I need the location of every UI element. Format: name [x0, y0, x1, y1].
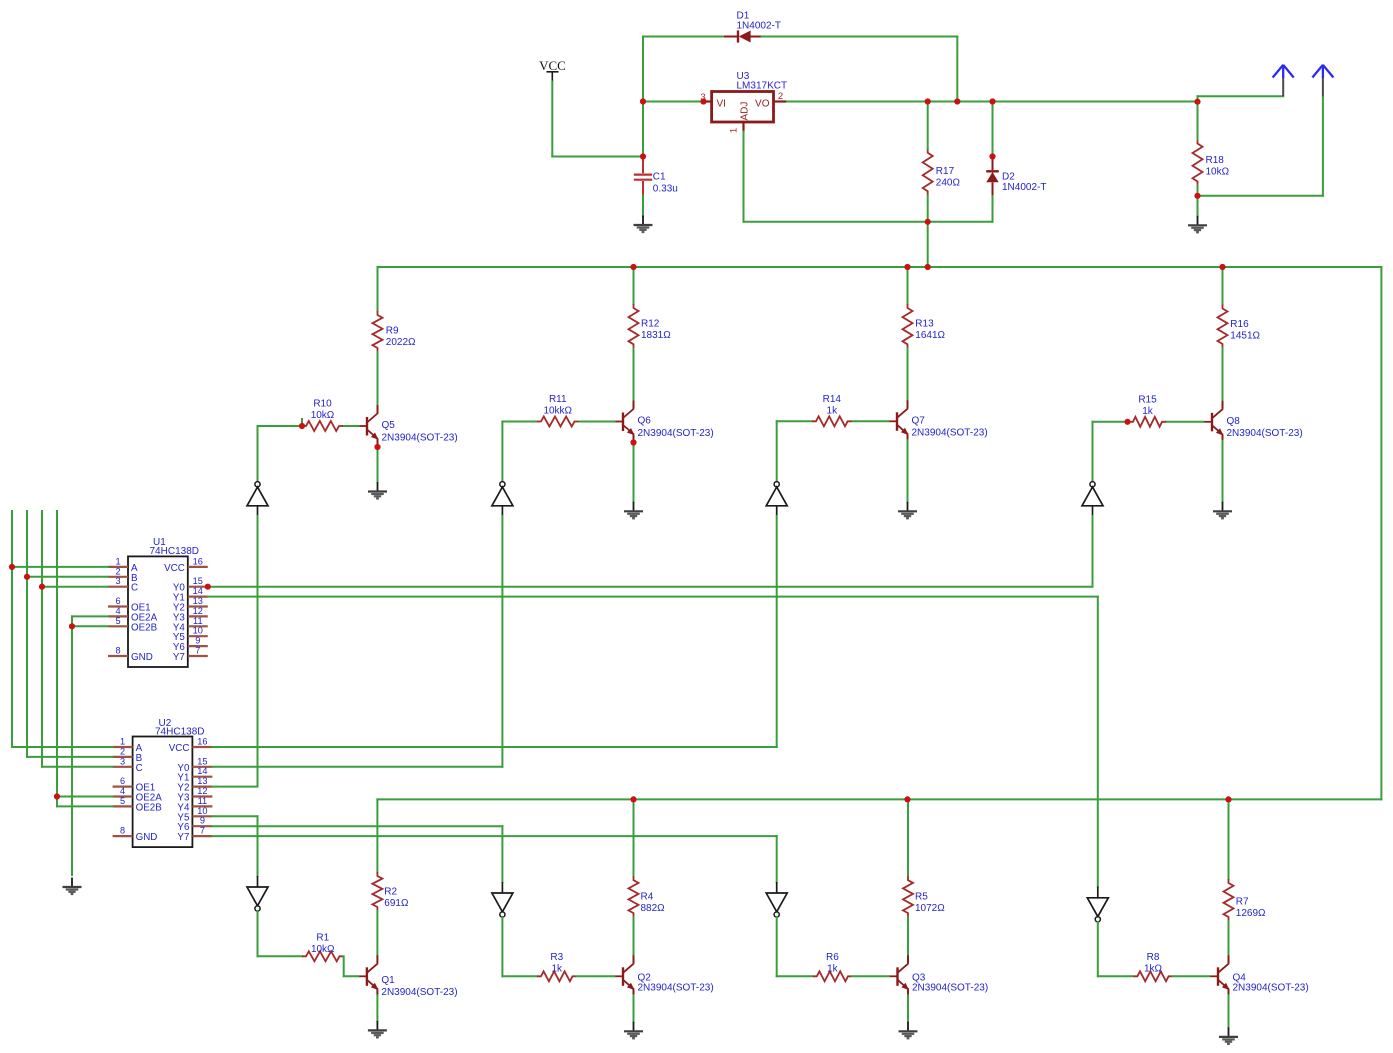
- wire emitter: [377, 445, 379, 482]
- svg-text:R9: R9: [386, 326, 399, 337]
- wire inverter output: [257, 911, 259, 956]
- pin 16 VCC of U1: [188, 566, 208, 568]
- diode D1 1N4002-T: [723, 30, 762, 42]
- resistor R5: [903, 876, 913, 917]
- wire inverter output: [501, 917, 503, 976]
- node junction: [374, 444, 380, 450]
- pin 13 Y2 of U2: [192, 785, 212, 787]
- node junction: [24, 574, 30, 580]
- svg-text:R15: R15: [1138, 394, 1157, 405]
- decoder U2 74HC138D: [133, 737, 193, 848]
- wire top rail ADJ net: [378, 266, 1382, 268]
- wire: [1197, 186, 1199, 196]
- wire net U2.Y6: [212, 825, 502, 827]
- svg-text:OE2B: OE2B: [136, 802, 163, 813]
- pin 5 OE2B of U2: [113, 805, 133, 807]
- pin 1 A of U2: [113, 746, 133, 748]
- pin 3 C of U1: [108, 586, 128, 588]
- svg-text:C1: C1: [653, 171, 666, 182]
- decoder U1 74HC138D: [128, 556, 188, 667]
- wire ADJ net: [743, 132, 745, 222]
- svg-text:R18: R18: [1206, 155, 1225, 166]
- wire U1 C: [42, 586, 108, 588]
- svg-text:15: 15: [193, 576, 203, 586]
- pin 3 C of U2: [113, 766, 133, 768]
- svg-text:6: 6: [115, 596, 120, 606]
- svg-text:Y7: Y7: [173, 652, 185, 663]
- svg-text:2N3904(SOT-23): 2N3904(SOT-23): [912, 983, 988, 994]
- svg-text:15: 15: [197, 756, 207, 766]
- node junction: [1219, 264, 1225, 270]
- wire net U2.Y2: [212, 786, 257, 788]
- svg-text:11: 11: [198, 796, 208, 806]
- svg-text:9: 9: [200, 816, 205, 826]
- node junction: [640, 98, 646, 104]
- ground Q6: [624, 502, 643, 518]
- pin 6 OE1 of U1: [108, 605, 128, 607]
- svg-text:3: 3: [120, 756, 125, 766]
- wire: [1197, 96, 1199, 101]
- pin 13 Y2 of U1: [188, 605, 208, 607]
- inverter buffer bottom row 4: [1087, 887, 1108, 922]
- svg-text:1N4002-T: 1N4002-T: [737, 20, 781, 31]
- ground Q3: [899, 1022, 918, 1038]
- wire: [1322, 96, 1324, 196]
- svg-text:2: 2: [778, 91, 783, 102]
- wire emitter: [1228, 995, 1230, 1027]
- wire collector chain Q5: [377, 267, 379, 311]
- resistor R12 1831ohm: [629, 304, 639, 348]
- node junction: [54, 793, 60, 799]
- wire: [907, 348, 909, 400]
- svg-text:2N3904(SOT-23): 2N3904(SOT-23): [1227, 428, 1303, 439]
- node junction: [989, 98, 995, 104]
- wire: [577, 975, 615, 977]
- pin 10 Y5 of U2: [192, 815, 212, 817]
- resistor R7: [1224, 879, 1234, 921]
- resistor R3 base: [537, 971, 577, 981]
- pin 7 Y7 of U2: [192, 835, 212, 837]
- pin 12 Y3 of U1: [188, 615, 208, 617]
- svg-text:Q5: Q5: [382, 420, 396, 431]
- wire bottom rail: [377, 798, 1381, 800]
- pin 9 Y6 of U2: [192, 825, 212, 827]
- wire U2 OE2A: [57, 796, 113, 798]
- svg-text:R10: R10: [313, 399, 332, 410]
- svg-text:R17: R17: [936, 166, 955, 177]
- capacitor C1 0.33u: [634, 158, 652, 196]
- wire base: [1093, 421, 1130, 423]
- resistor R17 240: [923, 149, 933, 195]
- svg-text:VO: VO: [755, 98, 770, 109]
- wire: [1197, 102, 1199, 140]
- pin 11 Y4 of U1: [188, 625, 208, 627]
- wire: [633, 917, 635, 955]
- ground Q7: [898, 502, 917, 518]
- svg-text:11: 11: [193, 616, 203, 626]
- svg-text:2N3904(SOT-23): 2N3904(SOT-23): [381, 987, 457, 998]
- wire collector chain Q6: [633, 267, 635, 304]
- node junction: [989, 153, 995, 159]
- resistor R13 1641ohm: [903, 304, 913, 348]
- wire U1 A: [12, 566, 108, 568]
- svg-text:1269Ω: 1269Ω: [1236, 908, 1266, 919]
- resistor R15 base: [1129, 417, 1166, 427]
- svg-text:1641Ω: 1641Ω: [915, 330, 945, 341]
- pin 4 OE2A of U2: [113, 795, 133, 797]
- wire: [1173, 975, 1210, 977]
- wire base: [502, 421, 537, 423]
- svg-text:2022Ω: 2022Ω: [386, 337, 416, 348]
- wire: [642, 37, 644, 157]
- transistor Q1 2N3904: [358, 955, 378, 995]
- wire base 2: [1166, 421, 1204, 423]
- node junction: [700, 98, 706, 104]
- svg-text:2N3904(SOT-23): 2N3904(SOT-23): [638, 428, 714, 439]
- svg-text:13: 13: [197, 776, 207, 786]
- inverter buffer bottom row 2: [492, 882, 513, 917]
- wire U1 OE2A: [72, 615, 108, 617]
- svg-text:10kΩ: 10kΩ: [311, 944, 335, 955]
- inverter buffer bottom row 1: [247, 876, 268, 911]
- wire OE ground drop: [71, 616, 73, 875]
- svg-text:1N4002-T: 1N4002-T: [1002, 182, 1046, 193]
- svg-text:12: 12: [197, 786, 207, 796]
- node junction: [1124, 419, 1130, 425]
- svg-text:1k: 1k: [827, 405, 839, 416]
- wire inverter input: [257, 516, 259, 787]
- wire: [376, 911, 378, 955]
- svg-text:ADJ: ADJ: [740, 102, 751, 121]
- wire bus line B: [26, 511, 28, 757]
- svg-text:R3: R3: [550, 952, 563, 963]
- svg-text:8: 8: [115, 646, 120, 656]
- svg-text:R6: R6: [826, 952, 839, 963]
- svg-text:2N3904(SOT-23): 2N3904(SOT-23): [638, 983, 714, 994]
- node junction: [904, 264, 910, 270]
- pin 9 Y6 of U1: [188, 645, 208, 647]
- svg-text:LM317KCT: LM317KCT: [737, 81, 788, 92]
- pin 2 B of U1: [108, 576, 128, 578]
- svg-text:VCC: VCC: [164, 563, 185, 574]
- svg-text:12: 12: [193, 606, 203, 616]
- pin 6 OE1 of U2: [113, 785, 133, 787]
- svg-text:R2: R2: [384, 886, 397, 897]
- pin 4 OE2A of U1: [108, 615, 128, 617]
- svg-text:1kΩ: 1kΩ: [1144, 963, 1163, 974]
- pin 10 Y5 of U1: [188, 635, 208, 637]
- wire inverter to base corner: [776, 421, 778, 482]
- wire: [744, 221, 993, 223]
- node junction: [640, 153, 646, 159]
- pin 8 GND of U2: [113, 835, 133, 837]
- resistor R9 2022ohm: [373, 311, 383, 352]
- wire: [633, 348, 635, 400]
- transistor Q3 2N3904: [889, 955, 909, 995]
- svg-text:74HC138D: 74HC138D: [150, 546, 199, 557]
- wire inverter to base corner: [501, 422, 503, 482]
- svg-text:10: 10: [193, 626, 203, 636]
- node junction: [1225, 796, 1231, 802]
- ground: [1188, 216, 1207, 232]
- svg-text:R4: R4: [641, 892, 654, 903]
- pin 14 Y1 of U2: [192, 776, 212, 778]
- svg-text:R12: R12: [641, 319, 660, 330]
- op-amp regulator U3 LM317KCT: [704, 92, 788, 132]
- svg-text:R5: R5: [915, 892, 928, 903]
- wire net U1.Y0 to inverter: [208, 586, 1093, 588]
- wire bus line C: [41, 511, 43, 767]
- svg-text:2N3904(SOT-23): 2N3904(SOT-23): [1233, 983, 1309, 994]
- wire: [1098, 975, 1134, 977]
- wire: [344, 975, 359, 977]
- wire net U2.Y5: [212, 815, 257, 817]
- resistor R16 1451ohm: [1218, 305, 1228, 349]
- svg-text:C: C: [131, 583, 138, 594]
- wire net U1.Y1 drop: [1097, 597, 1099, 887]
- wire inverter input: [1092, 516, 1094, 587]
- resistor R1 base: [302, 951, 344, 961]
- wire: [642, 196, 644, 217]
- wire inverter input: [776, 516, 778, 747]
- wire net U2.Y7 drop: [776, 836, 778, 882]
- resistor R6 base: [813, 971, 852, 981]
- wire net U2.Y0: [212, 766, 502, 768]
- wire U2 A: [12, 746, 113, 748]
- wire: [502, 975, 537, 977]
- ground: [634, 216, 653, 232]
- node junction: [299, 423, 305, 429]
- wire: [777, 975, 813, 977]
- node junction: [630, 264, 636, 270]
- svg-text:C: C: [136, 763, 143, 774]
- wire U2 C: [42, 766, 113, 768]
- svg-text:16: 16: [197, 737, 207, 747]
- svg-text:2N3904(SOT-23): 2N3904(SOT-23): [382, 432, 458, 443]
- svg-text:R8: R8: [1147, 952, 1160, 963]
- wire base 2: [852, 420, 889, 422]
- pin 11 Y4 of U2: [192, 805, 212, 807]
- transistor Q7 2N3904: [889, 400, 909, 440]
- power flag VCC: [539, 58, 566, 82]
- wire collector chain Q8: [1222, 267, 1224, 305]
- svg-text:8: 8: [120, 826, 125, 836]
- pin 16 VCC of U2: [192, 746, 212, 748]
- svg-text:9: 9: [195, 636, 200, 646]
- svg-text:6: 6: [120, 776, 125, 786]
- svg-text:10kkΩ: 10kkΩ: [543, 406, 572, 417]
- pin 2 B of U2: [113, 756, 133, 758]
- wire: [927, 102, 929, 149]
- node junction: [1194, 99, 1200, 105]
- svg-text:VCC: VCC: [539, 58, 566, 73]
- transistor Q8 2N3904: [1204, 401, 1224, 441]
- svg-text:Q6: Q6: [638, 416, 652, 427]
- wire: [762, 36, 958, 38]
- resistor R4: [629, 876, 639, 917]
- pin 15 Y0 of U1: [188, 586, 208, 588]
- resistor R14 base: [812, 416, 852, 426]
- svg-text:10kΩ: 10kΩ: [1206, 167, 1230, 178]
- diode D2 1N4002-T: [986, 158, 999, 196]
- wire emitter: [376, 995, 378, 1021]
- wire collector chain Q7: [907, 267, 909, 304]
- wire: [1222, 348, 1224, 401]
- wire emitter: [1222, 441, 1224, 502]
- svg-text:R1: R1: [316, 933, 329, 944]
- wire: [907, 917, 909, 955]
- svg-text:7: 7: [200, 826, 205, 836]
- wire base 2: [343, 425, 359, 427]
- wire: [258, 955, 303, 957]
- svg-text:1: 1: [729, 128, 740, 133]
- svg-text:1k: 1k: [551, 963, 563, 974]
- svg-text:4: 4: [120, 786, 125, 796]
- inverter buffer top row 3: [766, 482, 787, 516]
- svg-text:OE2B: OE2B: [131, 622, 158, 633]
- wire U2 B: [27, 756, 113, 758]
- node junction: [925, 264, 931, 270]
- svg-text:5: 5: [115, 616, 120, 626]
- ground Q2: [624, 1022, 643, 1038]
- svg-text:1451Ω: 1451Ω: [1230, 331, 1260, 342]
- wire net U2.Y5 drop: [257, 816, 259, 876]
- svg-text:691Ω: 691Ω: [384, 898, 409, 909]
- inverter buffer top row 2: [492, 482, 513, 516]
- net port arrow 2: [1312, 65, 1333, 97]
- pin 12 Y3 of U2: [192, 795, 212, 797]
- net port arrow 1: [1273, 65, 1294, 97]
- wire collector chain Q1: [376, 799, 378, 872]
- pin 5 OE2B of U1: [108, 625, 128, 627]
- wire net U2.Y7: [212, 835, 776, 837]
- node junction: [630, 796, 636, 802]
- wire emitter: [907, 995, 909, 1022]
- pin 15 Y0 of U2: [192, 766, 212, 768]
- wire net U2.Y6 drop: [501, 826, 503, 882]
- ground OE enable: [63, 878, 82, 894]
- transistor Q2 2N3904: [615, 955, 635, 995]
- wire: [852, 975, 889, 977]
- svg-text:14: 14: [193, 586, 203, 596]
- node junction: [39, 584, 45, 590]
- svg-text:7: 7: [195, 646, 200, 656]
- wire base: [777, 420, 812, 422]
- svg-text:VI: VI: [717, 98, 726, 109]
- inverter buffer top row 4: [1082, 482, 1103, 516]
- svg-text:2N3904(SOT-23): 2N3904(SOT-23): [912, 428, 988, 439]
- pin 7 Y7 of U1: [188, 655, 208, 657]
- svg-text:13: 13: [193, 596, 203, 606]
- svg-text:Y7: Y7: [177, 832, 189, 843]
- svg-text:Q1: Q1: [381, 975, 395, 986]
- svg-text:882Ω: 882Ω: [641, 903, 666, 914]
- wire U1 OE2B: [72, 625, 108, 627]
- svg-text:14: 14: [197, 766, 207, 776]
- node junction: [925, 219, 931, 225]
- transistor Q4 2N3904: [1210, 955, 1230, 995]
- svg-text:10kΩ: 10kΩ: [311, 410, 335, 421]
- inverter buffer top row 1: [247, 482, 268, 516]
- node junction: [1194, 193, 1200, 199]
- svg-text:10: 10: [197, 806, 207, 816]
- node junction: [904, 796, 910, 802]
- wire: [992, 196, 994, 222]
- ground Q8: [1213, 502, 1232, 518]
- wire inverter input: [501, 516, 503, 767]
- svg-text:1k: 1k: [1142, 406, 1154, 417]
- resistor R11 base: [537, 417, 579, 427]
- node junction: [69, 623, 75, 629]
- svg-text:R7: R7: [1236, 897, 1249, 908]
- svg-text:0.33u: 0.33u: [653, 183, 678, 194]
- resistor R8 base: [1133, 971, 1172, 981]
- node junction: [205, 584, 211, 590]
- wire emitter: [633, 441, 635, 502]
- ground Q5: [368, 482, 387, 498]
- svg-text:4: 4: [115, 606, 120, 616]
- node junction: [9, 564, 15, 570]
- resistor R18 10k: [1193, 140, 1203, 186]
- wire: [956, 37, 958, 102]
- svg-text:240Ω: 240Ω: [936, 178, 961, 189]
- ground Q1: [368, 1021, 387, 1037]
- pin 1 A of U1: [108, 566, 128, 568]
- wire: [551, 82, 553, 157]
- wire U2 OE2B: [57, 805, 113, 807]
- svg-text:1072Ω: 1072Ω: [915, 903, 945, 914]
- ground Q4: [1219, 1027, 1238, 1043]
- wire main output rail: [787, 101, 1198, 103]
- wire collector chain Q2: [633, 799, 635, 876]
- wire emitter: [907, 440, 909, 502]
- node junction: [925, 98, 931, 104]
- wire: [1198, 95, 1284, 97]
- svg-text:Q8: Q8: [1227, 416, 1241, 427]
- wire collector chain Q3: [907, 799, 909, 876]
- wire: [1228, 921, 1230, 955]
- wire: [552, 156, 643, 158]
- wire inverter output: [776, 917, 778, 976]
- wire base 2: [579, 421, 615, 423]
- wire right vertical: [1380, 267, 1382, 799]
- svg-text:R16: R16: [1230, 319, 1249, 330]
- svg-text:1: 1: [115, 556, 120, 566]
- svg-text:1: 1: [120, 737, 125, 747]
- wire: [927, 195, 929, 222]
- svg-text:16: 16: [193, 556, 203, 566]
- wire: [377, 352, 379, 405]
- svg-text:5: 5: [120, 796, 125, 806]
- transistor Q5 2N3904: [359, 405, 379, 445]
- node junction: [954, 98, 960, 104]
- transistor Q6 2N3904: [615, 401, 635, 441]
- inverter buffer bottom row 3: [766, 882, 787, 917]
- wire bus line A: [11, 511, 13, 747]
- wire inverter to base corner: [1092, 422, 1094, 482]
- wire U1 B: [27, 576, 108, 578]
- svg-text:Q7: Q7: [912, 415, 926, 426]
- svg-text:1831Ω: 1831Ω: [641, 330, 671, 341]
- wire: [643, 101, 704, 103]
- wire elbow: [343, 956, 345, 976]
- wire inverter to base corner: [257, 426, 259, 482]
- svg-text:2: 2: [115, 566, 120, 576]
- resistor R2: [372, 872, 382, 911]
- wire net U2.VCC to inverter: [212, 746, 776, 748]
- svg-text:2: 2: [120, 746, 125, 756]
- wire inverter output: [1097, 922, 1099, 976]
